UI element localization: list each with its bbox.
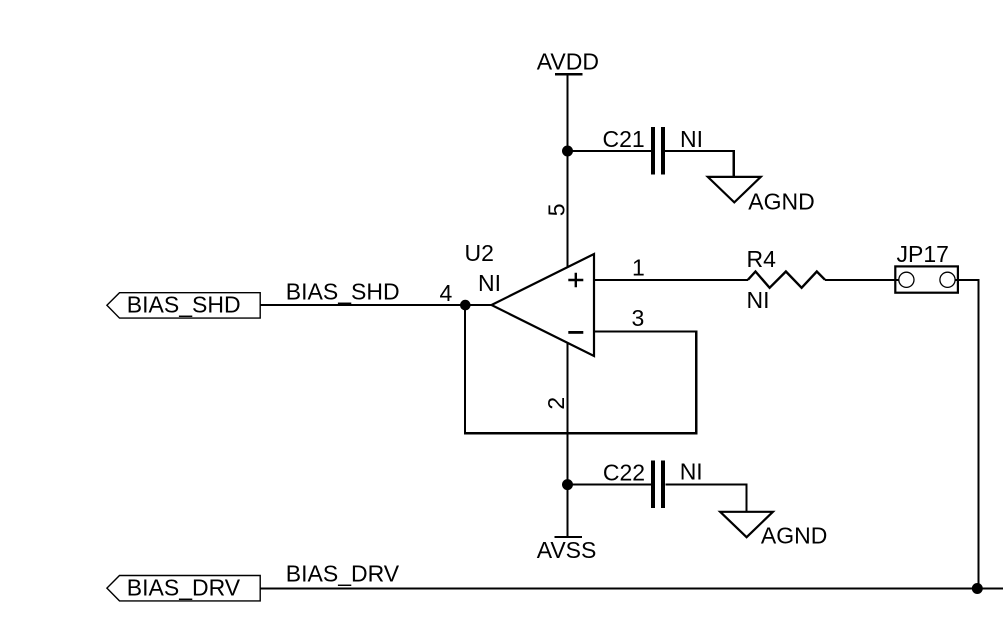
connector BIAS_SHD flag: [107, 293, 260, 318]
svg-text:R4: R4: [747, 246, 777, 272]
connector BIAS_DRV flag: [107, 576, 260, 601]
wire R4 to JP17: [825, 279, 899, 281]
svg-text:3: 3: [632, 305, 645, 331]
wire C21 to AGND: [665, 151, 734, 177]
ground AGND symbol bottom: [720, 512, 773, 537]
svg-text:BIAS_DRV: BIAS_DRV: [127, 574, 241, 600]
svg-text:BIAS_SHD: BIAS_SHD: [127, 292, 241, 318]
wire op-amp pin 2 rail to AVSS: [566, 343, 568, 537]
svg-text:4: 4: [440, 280, 453, 306]
jumper JP17 pad 1: [899, 272, 914, 287]
svg-text:U2: U2: [465, 240, 494, 266]
svg-text:5: 5: [543, 204, 569, 217]
svg-text:BIAS_DRV: BIAS_DRV: [286, 560, 400, 586]
svg-text:AVSS: AVSS: [537, 537, 597, 563]
op-amp minus input marker: [568, 331, 583, 334]
op-amp plus input marker: [568, 273, 583, 288]
jumper JP17 pad 2: [940, 272, 955, 287]
svg-text:C21: C21: [603, 126, 645, 152]
op-amp U2 triangle: [492, 254, 595, 356]
wire JP17 to bottom net: [955, 280, 978, 589]
jumper JP17 body: [895, 266, 958, 292]
wire C22 to AGND: [665, 485, 746, 512]
svg-text:BIAS_SHD: BIAS_SHD: [286, 279, 400, 305]
svg-text:AGND: AGND: [761, 522, 827, 548]
svg-text:AVDD: AVDD: [537, 48, 599, 74]
wire junction to C22: [568, 484, 651, 486]
wire BIAS_DRV net: [260, 587, 1003, 589]
wire junction to C21: [568, 150, 651, 152]
svg-text:2: 2: [543, 397, 569, 410]
power AVSS bar: [555, 536, 582, 538]
svg-text:NI: NI: [680, 459, 703, 485]
node junction bottom right: [972, 583, 983, 594]
resistor R4 zigzag: [748, 272, 825, 288]
wire op-amp pin 3 feedback loop: [465, 305, 696, 433]
node junction AVSS/C22: [562, 479, 573, 490]
svg-text:AGND: AGND: [748, 188, 814, 214]
capacitor C22 plates: [653, 460, 663, 508]
capacitor C21 plates: [653, 127, 663, 175]
ground AGND symbol top: [708, 177, 761, 203]
wire AVDD rail to op-amp pin 5: [566, 74, 568, 267]
power AVDD bar: [555, 73, 583, 75]
svg-text:NI: NI: [478, 270, 501, 296]
node junction output/feedback: [460, 300, 471, 311]
wire BIAS_SHD to op-amp pin 4: [260, 304, 492, 306]
svg-text:1: 1: [632, 254, 645, 280]
svg-text:JP17: JP17: [897, 241, 949, 267]
svg-text:NI: NI: [747, 287, 770, 313]
svg-text:NI: NI: [680, 126, 703, 152]
svg-text:C22: C22: [603, 459, 645, 485]
wire op-amp pin 1 to R4: [594, 279, 748, 281]
node junction AVDD/C21: [562, 146, 573, 157]
